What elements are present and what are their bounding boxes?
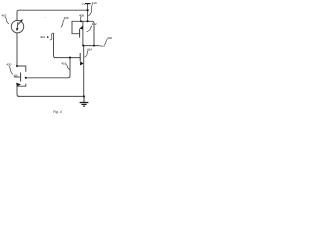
wire bottom ground rail — [18, 95, 84, 97]
svg-text:Fig. 4: Fig. 4 — [53, 110, 62, 114]
leader to upper wire — [79, 17, 82, 21]
leader to M1 gate loop — [61, 20, 65, 28]
leader to mirror vertical — [66, 64, 70, 69]
stray speck — [45, 17, 46, 18]
svg-text:416: 416 — [13, 74, 18, 78]
junction mirror gate dot — [69, 57, 71, 59]
svg-text:414: 414 — [87, 47, 92, 51]
wire upper horizontal 21 — [72, 21, 94, 45]
wire top rail — [17, 10, 88, 20]
junction supply-rail dot — [87, 9, 89, 11]
transistor M1 arrowhead — [80, 26, 84, 30]
current source diagonal tip line — [18, 21, 21, 24]
wire left vertical from source to node A — [16, 33, 18, 66]
junction node A dot — [16, 65, 18, 67]
current source tip arrowhead — [20, 19, 23, 22]
junction ground rail dot — [83, 95, 85, 97]
label 404 dot — [47, 36, 49, 38]
transistor M2 source arrowhead — [80, 61, 84, 65]
leader to output — [104, 39, 107, 45]
svg-text:412: 412 — [92, 22, 97, 26]
svg-text:404: 404 — [40, 35, 45, 39]
wire M3 source return — [17, 84, 26, 96]
current source internal arrow — [16, 22, 19, 29]
leader to M2 channel — [85, 50, 89, 57]
leader to supply vertical — [88, 4, 92, 16]
junction upper node dot — [87, 20, 89, 22]
ground — [80, 96, 89, 106]
svg-text:418: 418 — [107, 36, 112, 40]
transistor M2 gate bar — [79, 53, 81, 61]
svg-text:402: 402 — [2, 14, 7, 18]
svg-text:406: 406 — [64, 16, 69, 20]
transistor M3 gate bar — [20, 73, 22, 82]
svg-text:V+: V+ — [82, 2, 86, 6]
current source arrowhead — [16, 28, 19, 31]
transistor M3 source arrowhead — [16, 83, 21, 87]
svg-text:420: 420 — [6, 63, 11, 67]
transistor M2 channel — [83, 46, 85, 97]
wire current mirror horizontal — [26, 58, 70, 78]
svg-text:Out: Out — [100, 44, 105, 48]
transistor M3 gate lead — [14, 76, 21, 78]
supply terminal bar — [85, 3, 91, 5]
svg-text:408: 408 — [79, 13, 84, 17]
transistor M1 gate bar — [79, 29, 81, 38]
junction output right dot — [93, 45, 95, 47]
wire supply vertical — [87, 4, 89, 22]
wire output node — [83, 45, 99, 47]
junction M1 drain dot — [80, 20, 82, 22]
svg-text:410: 410 — [92, 1, 97, 5]
wire M2 gate lead with bias stub — [54, 33, 81, 57]
leader to current source — [5, 17, 9, 24]
junction mirror tap dot — [25, 77, 27, 79]
svg-text:416: 416 — [61, 61, 66, 65]
leader to bias stub — [50, 34, 54, 40]
current source I circle — [11, 20, 23, 32]
junction output left dot — [82, 45, 84, 47]
leader to M3 gate — [9, 66, 13, 74]
wire node A to M3 drain — [17, 66, 26, 72]
leader to M1 channel — [87, 26, 92, 32]
wire M1 gate loop — [72, 21, 80, 33]
transistor M1 channel — [82, 21, 84, 45]
